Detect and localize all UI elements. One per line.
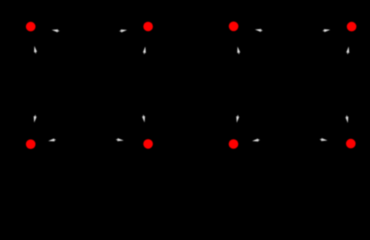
displacement arrow H5 pointing toward atom A5 bbox=[48, 138, 56, 142]
displacement arrow H7 pointing toward atom A7 bbox=[252, 138, 260, 142]
atom A2 (red dot) bbox=[143, 22, 153, 32]
displacement arrow H2 pointing toward atom A2 bbox=[119, 28, 127, 32]
displacement arrow H3 pointing toward atom A3 bbox=[255, 28, 263, 32]
displacement arrow V7 pointing toward atom A7 bbox=[235, 115, 239, 123]
displacement arrow V2 pointing toward atom A2 bbox=[143, 46, 147, 54]
atom A6 (red dot) bbox=[143, 139, 153, 149]
displacement arrow V8 pointing toward atom A8 bbox=[345, 115, 349, 123]
atom A3 (red dot) bbox=[229, 22, 239, 32]
atom A8 (red dot) bbox=[346, 139, 356, 149]
displacement arrow V5 pointing toward atom A5 bbox=[33, 115, 37, 123]
atom A5 (red dot) bbox=[26, 139, 36, 149]
displacement arrow V4 pointing toward atom A4 bbox=[346, 46, 350, 54]
displacement arrow H6 pointing toward atom A6 bbox=[116, 138, 124, 142]
atom A7 (red dot) bbox=[229, 139, 239, 149]
displacement arrow H4 pointing toward atom A4 bbox=[323, 28, 331, 32]
displacement arrow H8 pointing toward atom A8 bbox=[320, 138, 328, 142]
atom A4 (red dot) bbox=[347, 22, 357, 32]
displacement arrow V6 pointing toward atom A6 bbox=[142, 115, 146, 123]
atom A1 (red dot) bbox=[26, 22, 36, 32]
displacement arrow H1 pointing toward atom A1 bbox=[52, 28, 60, 32]
displacement arrow V3 pointing toward atom A3 bbox=[236, 46, 240, 54]
displacement arrow V1 pointing toward atom A1 bbox=[33, 46, 37, 54]
